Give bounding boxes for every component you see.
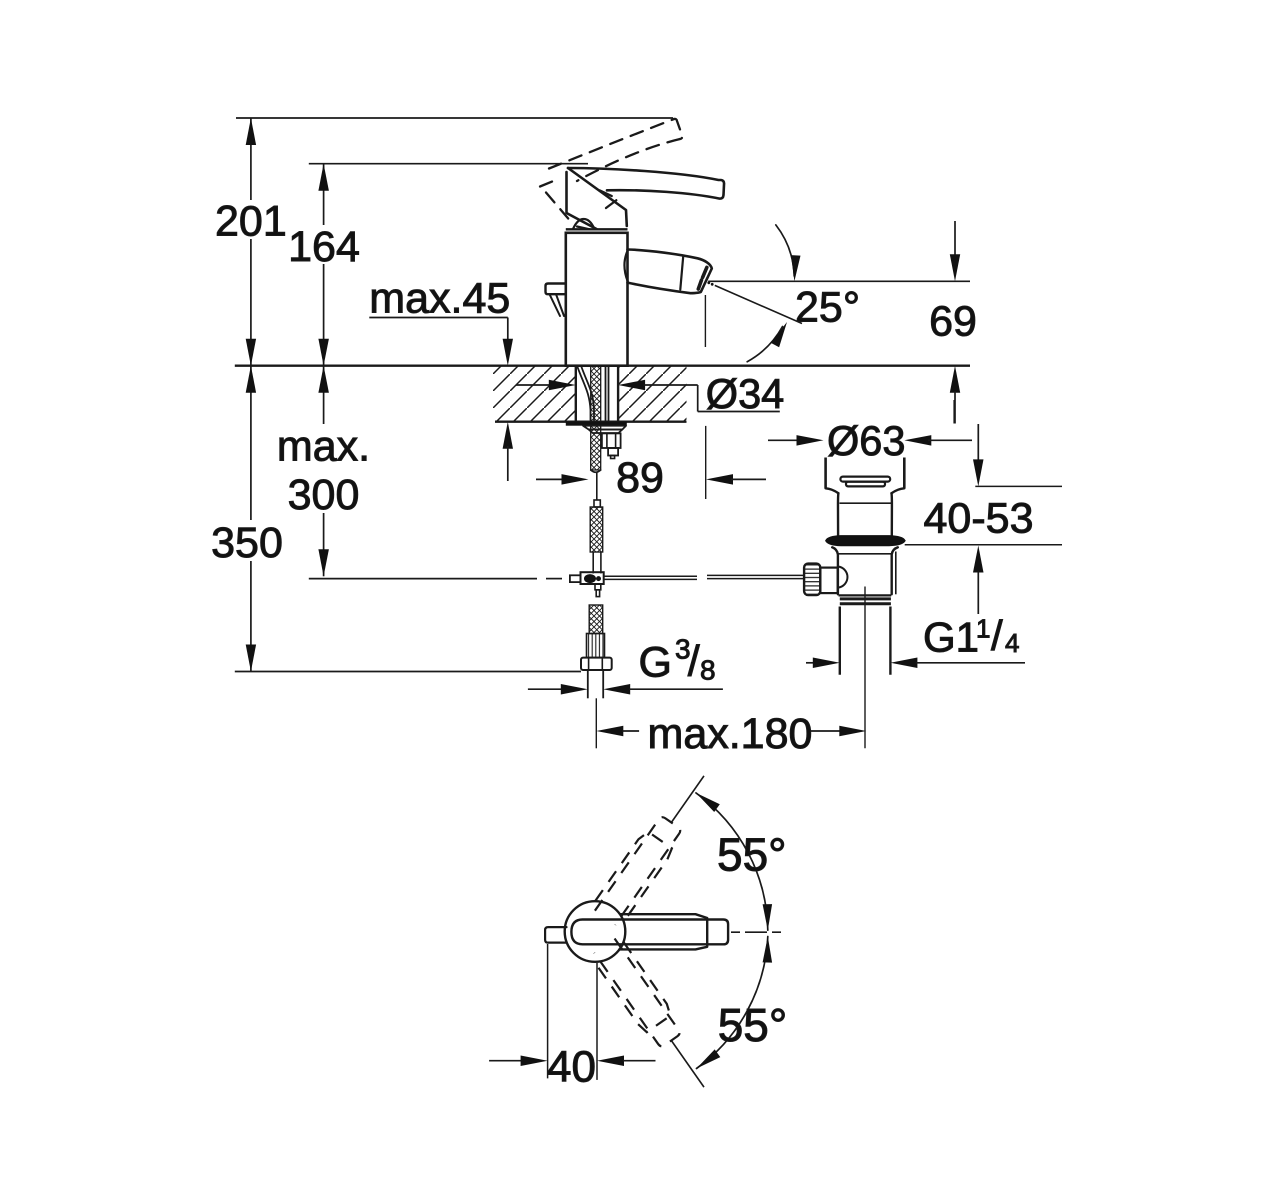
svg-text:25°: 25° — [795, 284, 860, 332]
svg-text:8: 8 — [700, 655, 716, 686]
svg-text:max.180: max.180 — [648, 710, 813, 758]
svg-text:1: 1 — [976, 614, 990, 644]
svg-text:40: 40 — [547, 1043, 596, 1092]
svg-text:350: 350 — [211, 519, 283, 567]
svg-text:Ø34: Ø34 — [706, 370, 784, 417]
svg-text:max.: max. — [277, 423, 370, 471]
svg-text:G1: G1 — [923, 614, 979, 661]
svg-text:69: 69 — [929, 298, 977, 346]
svg-text:89: 89 — [616, 454, 664, 502]
svg-text:201: 201 — [215, 198, 287, 246]
svg-text:40-53: 40-53 — [924, 495, 1034, 543]
svg-text:300: 300 — [288, 471, 360, 519]
svg-text:164: 164 — [288, 223, 360, 271]
svg-text:4: 4 — [1005, 628, 1019, 658]
svg-text:55°: 55° — [717, 829, 787, 881]
svg-text:55°: 55° — [718, 999, 788, 1051]
svg-text:/: / — [688, 638, 700, 686]
svg-text:max.45: max.45 — [369, 275, 510, 323]
svg-text:Ø63: Ø63 — [827, 417, 905, 464]
svg-text:/: / — [991, 612, 1003, 659]
svg-text:G: G — [639, 639, 672, 687]
